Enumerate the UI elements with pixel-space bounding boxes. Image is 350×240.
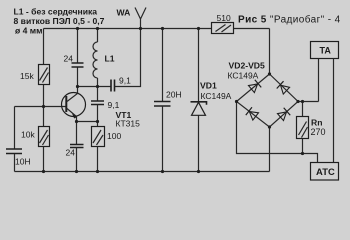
node Rn top bbox=[301, 100, 304, 103]
inductor L1 bbox=[93, 29, 115, 87]
node Rn bottom bbox=[301, 152, 304, 155]
wire TA right lead bbox=[333, 59, 335, 163]
svg-text:Rn: Rn bbox=[311, 118, 322, 128]
svg-text:270: 270 bbox=[311, 127, 326, 137]
node C24a top rail bbox=[76, 27, 79, 30]
diode VD4 lower-left bbox=[246, 107, 259, 120]
wire bridge left to ATC bbox=[237, 102, 318, 163]
svg-text:100: 100 bbox=[107, 131, 121, 141]
capacitor 9,1 coupling bbox=[111, 76, 131, 92]
node R100 ground bbox=[96, 170, 99, 173]
node base divider bbox=[42, 105, 45, 108]
ATC box bbox=[311, 163, 339, 181]
resistor R 10k bbox=[21, 127, 50, 147]
wire emitter down bbox=[76, 122, 78, 145]
svg-text:20Н: 20Н bbox=[166, 90, 182, 100]
wire antenna feed bbox=[115, 29, 141, 87]
node collector tank bbox=[76, 85, 79, 88]
wire bridge bottom to ground bbox=[269, 127, 271, 172]
svg-text:8 витков ПЭЛ 0,5 - 0,7: 8 витков ПЭЛ 0,5 - 0,7 bbox=[14, 16, 105, 26]
antenna WA bbox=[117, 8, 147, 29]
capacitor 10H bbox=[6, 149, 31, 167]
wire emitter node bbox=[77, 121, 98, 123]
resistor R 15k bbox=[20, 65, 50, 85]
resistor Rn 270 bbox=[297, 102, 326, 154]
svg-text:КТ315: КТ315 bbox=[116, 119, 141, 129]
svg-text:L1: L1 bbox=[105, 54, 115, 64]
svg-text:VD1: VD1 bbox=[200, 81, 217, 91]
transformer TA box bbox=[311, 42, 339, 59]
node C24b ground bbox=[75, 170, 78, 173]
diode VD2 upper-left bbox=[248, 80, 261, 93]
svg-text:КС149А: КС149А bbox=[201, 91, 232, 101]
svg-text:24: 24 bbox=[66, 148, 76, 158]
svg-text:VD2-VD5: VD2-VD5 bbox=[229, 61, 266, 71]
diode VD5 lower-right bbox=[277, 108, 290, 121]
wire bridge arms bbox=[237, 74, 299, 127]
node emitter chain bbox=[96, 120, 99, 123]
capacitor 20H bbox=[154, 29, 182, 172]
node emitter bbox=[75, 120, 78, 123]
svg-text:15k: 15k bbox=[20, 71, 34, 81]
diode VD3 upper-right bbox=[277, 81, 290, 94]
svg-text:ø 4 мм: ø 4 мм bbox=[15, 25, 43, 35]
svg-text:10k: 10k bbox=[21, 130, 35, 140]
node R10k ground bbox=[42, 170, 45, 173]
wire TA left lead bbox=[318, 59, 320, 102]
svg-text:510: 510 bbox=[217, 13, 231, 23]
capacitor 24 bottom bbox=[66, 145, 84, 172]
wire bridge top feed bbox=[269, 29, 271, 75]
diode bridge VD2-VD5 KC149A bbox=[228, 61, 299, 128]
wire bottom rail bbox=[15, 171, 270, 173]
transistor VT1 KT315 bbox=[62, 87, 141, 129]
wire far-left column bbox=[14, 107, 16, 172]
zener diode VD1 KC149A bbox=[191, 29, 232, 172]
node L1 tank bbox=[96, 85, 99, 88]
resistor R 100 bbox=[92, 127, 122, 172]
node bridge top bbox=[268, 72, 271, 75]
node VD1 ground bbox=[197, 170, 200, 173]
wire base line bbox=[15, 106, 68, 108]
wire tank node bbox=[78, 86, 112, 88]
svg-text:ТА: ТА bbox=[320, 46, 332, 56]
node C 20H top rail bbox=[161, 27, 164, 30]
svg-text:Рис 5 "Радиобаг" - 4: Рис 5 "Радиобаг" - 4 bbox=[238, 13, 341, 25]
resistor 510 bbox=[212, 13, 234, 34]
capacitor 9,1 emitter bbox=[91, 87, 120, 127]
node L1 top rail bbox=[96, 27, 99, 30]
node bridge left bbox=[235, 100, 238, 103]
capacitor 24 top bbox=[64, 29, 84, 87]
wire left column bbox=[43, 29, 45, 172]
svg-text:КС149А: КС149А bbox=[228, 71, 259, 81]
node VD1 top rail bbox=[197, 27, 200, 30]
svg-text:АТС: АТС bbox=[316, 166, 335, 177]
wire bridge right node bbox=[298, 101, 319, 103]
node C20H ground bbox=[161, 170, 164, 173]
node bridge bottom bbox=[268, 125, 271, 128]
wire top rail bbox=[44, 28, 212, 30]
svg-text:10Н: 10Н bbox=[15, 157, 31, 167]
svg-text:9,1: 9,1 bbox=[119, 76, 131, 86]
svg-text:WA: WA bbox=[117, 8, 131, 18]
node bridge right bbox=[296, 100, 299, 103]
node antenna feed bbox=[139, 27, 142, 30]
svg-text:9,1: 9,1 bbox=[108, 100, 120, 110]
svg-text:24: 24 bbox=[64, 54, 74, 64]
wire top rail right of 510 bbox=[234, 28, 270, 30]
